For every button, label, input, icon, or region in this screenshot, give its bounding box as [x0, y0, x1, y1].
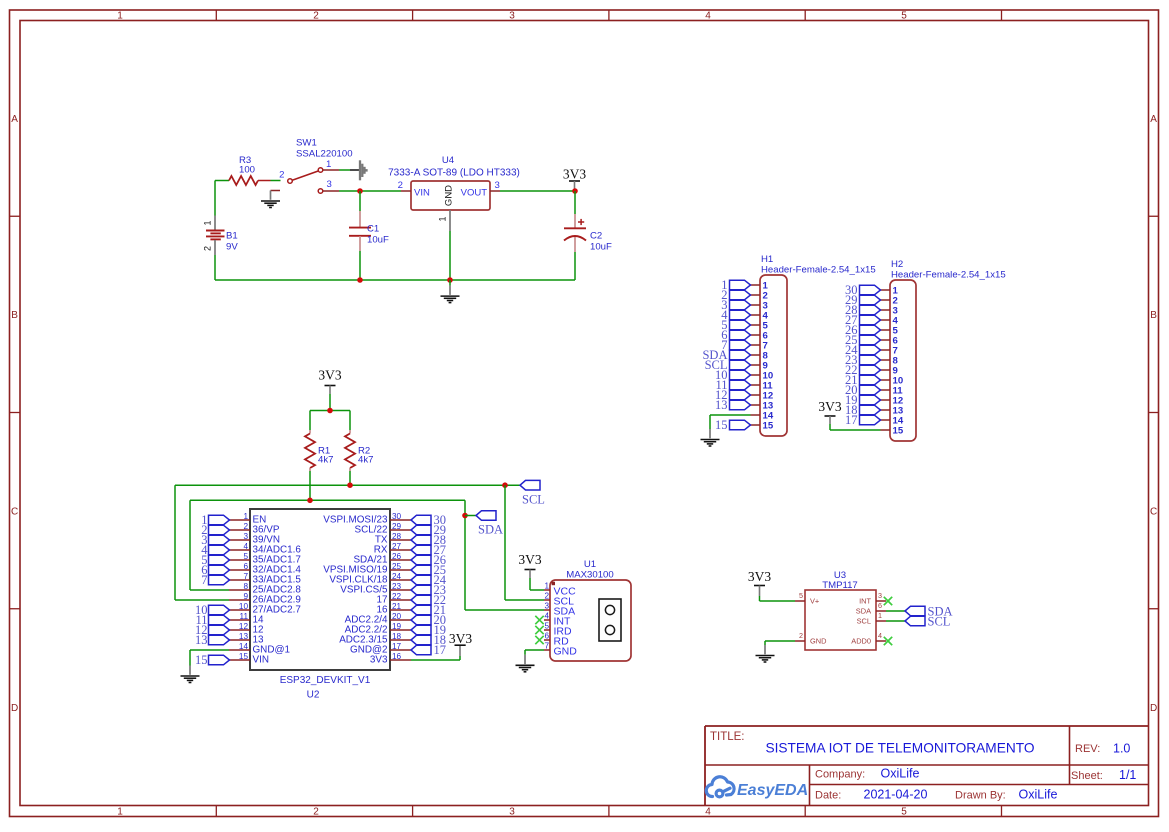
- svg-text:2: 2: [243, 522, 248, 531]
- svg-text:15: 15: [195, 653, 208, 667]
- svg-text:1.0: 1.0: [1113, 742, 1130, 756]
- svg-text:U4: U4: [442, 155, 455, 166]
- svg-text:17: 17: [434, 643, 447, 657]
- svg-text:4: 4: [544, 612, 549, 621]
- svg-text:3: 3: [327, 179, 332, 190]
- svg-text:REV:: REV:: [1075, 743, 1100, 755]
- svg-text:28: 28: [392, 532, 402, 541]
- svg-text:7333-A SOT-89 (LDO HT333): 7333-A SOT-89 (LDO HT333): [388, 168, 520, 179]
- svg-text:Header-Female-2.54_1x15: Header-Female-2.54_1x15: [761, 265, 876, 276]
- svg-text:5: 5: [544, 622, 549, 631]
- svg-text:9: 9: [243, 592, 248, 601]
- svg-text:OxiLife: OxiLife: [881, 767, 920, 781]
- svg-text:6: 6: [243, 562, 248, 571]
- svg-text:15: 15: [239, 652, 249, 661]
- svg-text:1: 1: [203, 220, 213, 225]
- svg-text:1: 1: [544, 582, 549, 591]
- svg-text:13: 13: [239, 632, 249, 641]
- svg-text:3V3: 3V3: [748, 569, 771, 584]
- svg-text:2: 2: [313, 806, 319, 817]
- svg-text:SCL: SCL: [928, 615, 951, 629]
- svg-text:5: 5: [901, 10, 907, 21]
- svg-text:Header-Female-2.54_1x15: Header-Female-2.54_1x15: [891, 270, 1006, 281]
- svg-text:21: 21: [392, 602, 402, 611]
- svg-text:10uF: 10uF: [590, 242, 612, 253]
- svg-text:SW1: SW1: [296, 138, 317, 149]
- svg-text:27: 27: [392, 542, 402, 551]
- svg-text:15: 15: [893, 425, 904, 436]
- svg-text:20: 20: [392, 612, 402, 621]
- svg-text:U1: U1: [584, 559, 596, 570]
- svg-text:SCL: SCL: [522, 493, 545, 507]
- svg-text:SISTEMA IOT DE TELEMONITORAMEN: SISTEMA IOT DE TELEMONITORAMENTO: [766, 741, 1035, 756]
- svg-text:Date:: Date:: [815, 790, 841, 802]
- svg-text:5: 5: [243, 552, 248, 561]
- svg-text:19: 19: [392, 622, 402, 631]
- svg-text:2: 2: [799, 631, 803, 640]
- svg-text:6: 6: [878, 601, 882, 610]
- svg-text:4k7: 4k7: [318, 455, 333, 466]
- svg-text:SSAL220100: SSAL220100: [296, 149, 353, 160]
- svg-text:Sheet:: Sheet:: [1071, 770, 1103, 782]
- svg-text:V+: V+: [810, 597, 819, 606]
- svg-text:5: 5: [799, 591, 803, 600]
- svg-text:3: 3: [509, 806, 515, 817]
- svg-text:7: 7: [201, 573, 207, 587]
- svg-text:3V3: 3V3: [449, 631, 472, 646]
- svg-text:3: 3: [878, 591, 882, 600]
- svg-text:1: 1: [117, 806, 123, 817]
- svg-text:3V3: 3V3: [518, 552, 541, 567]
- svg-text:MAX30100: MAX30100: [566, 570, 613, 581]
- svg-text:SCL: SCL: [857, 617, 871, 626]
- svg-text:13: 13: [715, 398, 728, 412]
- svg-text:17: 17: [392, 642, 402, 651]
- svg-text:30: 30: [392, 512, 402, 521]
- svg-text:INT: INT: [859, 597, 871, 606]
- svg-text:3V3: 3V3: [318, 368, 341, 383]
- svg-text:2021-04-20: 2021-04-20: [864, 788, 928, 802]
- svg-text:3V3: 3V3: [370, 655, 388, 666]
- svg-text:10: 10: [239, 602, 249, 611]
- svg-text:B1: B1: [226, 231, 238, 242]
- svg-text:1: 1: [243, 512, 248, 521]
- svg-text:6: 6: [544, 632, 549, 641]
- svg-text:2: 2: [313, 10, 319, 21]
- svg-text:17: 17: [845, 413, 858, 427]
- svg-text:EasyEDA: EasyEDA: [737, 782, 808, 799]
- svg-text:14: 14: [239, 642, 249, 651]
- svg-text:GND: GND: [554, 646, 578, 658]
- svg-text:ADD0: ADD0: [851, 637, 871, 646]
- svg-text:2: 2: [203, 246, 213, 251]
- svg-text:3: 3: [495, 180, 500, 191]
- svg-text:10uF: 10uF: [367, 235, 389, 246]
- svg-text:OxiLife: OxiLife: [1019, 788, 1058, 802]
- svg-text:D: D: [11, 703, 18, 714]
- svg-text:12: 12: [239, 622, 249, 631]
- svg-text:C: C: [11, 507, 18, 518]
- svg-text:1: 1: [438, 216, 448, 221]
- svg-text:TITLE:: TITLE:: [710, 731, 745, 743]
- svg-text:3V3: 3V3: [818, 399, 841, 414]
- svg-text:26: 26: [392, 552, 402, 561]
- svg-text:C2: C2: [590, 231, 602, 242]
- svg-text:1: 1: [326, 159, 331, 170]
- svg-text:GND: GND: [444, 185, 455, 206]
- svg-text:H2: H2: [891, 259, 903, 270]
- svg-text:5: 5: [901, 806, 907, 817]
- svg-text:Company:: Company:: [815, 769, 865, 781]
- svg-text:22: 22: [392, 592, 402, 601]
- svg-text:VIN: VIN: [253, 655, 269, 666]
- svg-text:15: 15: [763, 420, 774, 431]
- svg-text:3: 3: [509, 10, 515, 21]
- svg-text:Drawn By:: Drawn By:: [955, 790, 1006, 802]
- svg-text:24: 24: [392, 572, 402, 581]
- svg-text:2: 2: [279, 170, 284, 181]
- svg-text:C: C: [1150, 507, 1157, 518]
- svg-text:B: B: [1150, 310, 1157, 321]
- svg-text:H1: H1: [761, 254, 773, 265]
- svg-text:11: 11: [240, 612, 249, 621]
- svg-text:B: B: [11, 310, 18, 321]
- svg-text:SDA: SDA: [478, 523, 503, 537]
- svg-text:4: 4: [878, 631, 882, 640]
- svg-text:15: 15: [715, 418, 728, 432]
- svg-text:A: A: [1150, 114, 1157, 125]
- svg-text:SDA: SDA: [856, 607, 871, 616]
- svg-text:3: 3: [544, 602, 549, 611]
- svg-text:1/1: 1/1: [1119, 768, 1136, 782]
- svg-text:U2: U2: [307, 690, 320, 701]
- svg-text:C1: C1: [367, 224, 379, 235]
- svg-text:25: 25: [392, 562, 402, 571]
- svg-text:7: 7: [243, 572, 248, 581]
- svg-text:23: 23: [392, 582, 402, 591]
- svg-text:4k7: 4k7: [358, 455, 373, 466]
- svg-text:VIN: VIN: [414, 188, 430, 199]
- svg-text:4: 4: [243, 542, 248, 551]
- svg-text:1: 1: [117, 10, 123, 21]
- svg-text:16: 16: [392, 652, 402, 661]
- svg-text:8: 8: [243, 582, 248, 591]
- svg-text:18: 18: [392, 632, 402, 641]
- svg-text:1: 1: [878, 611, 882, 620]
- svg-text:2: 2: [398, 180, 403, 191]
- svg-text:7: 7: [544, 642, 549, 651]
- svg-text:D: D: [1150, 703, 1157, 714]
- svg-text:A: A: [11, 114, 18, 125]
- svg-text:2: 2: [544, 592, 549, 601]
- svg-text:ESP32_DEVKIT_V1: ESP32_DEVKIT_V1: [280, 675, 371, 686]
- svg-text:9V: 9V: [226, 242, 238, 253]
- svg-text:GND: GND: [810, 637, 826, 646]
- svg-text:4: 4: [705, 806, 711, 817]
- svg-text:13: 13: [195, 633, 208, 647]
- svg-text:29: 29: [392, 522, 402, 531]
- svg-text:3V3: 3V3: [563, 167, 586, 182]
- svg-text:VOUT: VOUT: [461, 188, 488, 199]
- svg-text:4: 4: [705, 10, 711, 21]
- svg-text:3: 3: [243, 532, 248, 541]
- svg-text:100: 100: [239, 165, 255, 176]
